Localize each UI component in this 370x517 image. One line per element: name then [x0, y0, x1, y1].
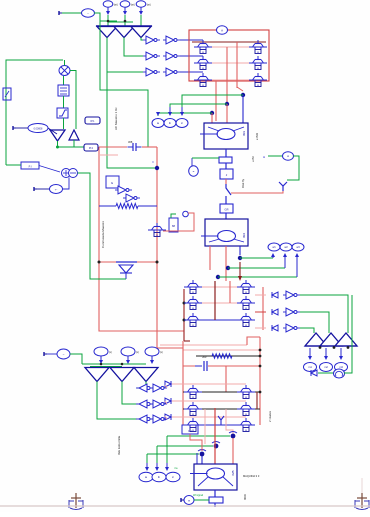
phase rail: [196, 46, 262, 48]
IGBT Q8: [190, 299, 196, 301]
block G1 box: [106, 176, 119, 188]
clutch switch SW1: [226, 184, 231, 195]
meter arrow b: [169, 107, 171, 113]
svg-text:IGE Esbornilla: IGE Esbornilla: [117, 435, 121, 455]
svg-text:w: w: [192, 396, 194, 399]
svg-text:(wt): (wt): [131, 4, 135, 7]
slave gate driver H1a: [139, 384, 147, 392]
wire out B2: [122, 382, 138, 405]
svg-text:MRD: MRD: [243, 494, 247, 500]
w sensor arrow 2: [284, 256, 286, 268]
svg-text:w: w: [257, 67, 259, 70]
bridge2a phase rail 3: [186, 319, 255, 321]
gate rx arrow r3: [272, 325, 278, 331]
gate g r1: [286, 291, 294, 299]
wire aux drop: [100, 21, 148, 147]
terminal circ: [183, 211, 189, 217]
sum junction SJ2: [69, 169, 78, 178]
red elbow right: [247, 337, 260, 345]
svg-text:Conmutada Maestro: Conmutada Maestro: [101, 220, 105, 248]
gate row pink b2b r3: [171, 416, 246, 418]
svg-text:2 niveles: 2 niveles: [268, 410, 272, 422]
comparator B1 triangle: [85, 368, 109, 382]
wire: [94, 13, 100, 21]
phase rail: [196, 62, 262, 64]
svg-text:w: w: [245, 324, 247, 327]
display m1: [304, 363, 317, 372]
Y probe P1: [279, 182, 287, 186]
source V1 oval: [82, 9, 95, 17]
wire comparator A3 output: [141, 38, 143, 41]
wire speed meas 3: [218, 276, 297, 278]
ammeter A on DC bus: [217, 26, 228, 34]
source oval V3: [57, 349, 70, 359]
wire shaft end: [214, 503, 216, 507]
sens arrow 3: [166, 463, 168, 468]
meter arrow c: [157, 112, 159, 114]
gate rx arrow r1: [272, 292, 278, 298]
arrow to disp 2: [325, 348, 327, 357]
gate driver G1b: [166, 36, 174, 44]
gate rx arrow r2: [272, 309, 278, 315]
bus top red: [99, 146, 127, 148]
svg-text:(s): (s): [109, 352, 112, 354]
wire speed meas 1: [240, 257, 273, 259]
reference source S1: [103, 1, 113, 7]
comparator A3 triangle: [131, 27, 151, 38]
limiter block LIM1: [57, 108, 68, 118]
wire motor3 feed b: [214, 452, 216, 464]
wire mult right: [70, 71, 76, 130]
terminal: [33, 187, 35, 191]
meter arrow a: [181, 107, 183, 113]
terminal: [12, 126, 14, 130]
bridge2b bus blue bottom: [186, 424, 255, 426]
svg-text:CH: CH: [188, 429, 192, 433]
display ic: [166, 472, 180, 482]
svg-text:P.I: P.I: [29, 165, 32, 169]
phase node dot f: [216, 275, 220, 279]
phase node dot e: [226, 266, 230, 270]
arrow into comparator input 1: [107, 7, 109, 12]
wire green gate3: [300, 328, 314, 333]
chopper box CH: [182, 425, 198, 434]
svg-text:w: w: [287, 155, 289, 158]
IGBT Q14: [190, 405, 196, 407]
wire: [16, 127, 28, 129]
bridge2a phase rail 1: [186, 286, 255, 288]
svg-text:(wt): (wt): [114, 4, 118, 7]
wire shaft: [225, 213, 227, 219]
source terminal: [43, 352, 45, 356]
svg-text:w: w: [192, 291, 194, 294]
svg-text:w2: w2: [284, 245, 288, 249]
bridge2b bus black 2: [183, 408, 260, 410]
meter display W3: [176, 119, 188, 128]
wire sens drop 3: [146, 454, 148, 463]
gate driver G2b: [166, 52, 174, 60]
bus rail right long: [259, 337, 261, 425]
comparator bus: [96, 25, 152, 27]
bus pink stub: [183, 349, 260, 351]
wire pi right: [39, 166, 60, 173]
wire driver green: [171, 214, 176, 218]
svg-text:i Ia: i Ia: [174, 466, 178, 470]
slave gate driver H2a: [139, 400, 147, 408]
wire comparator A1 output: [106, 38, 108, 73]
wire probe to switch: [231, 191, 283, 193]
junction: [98, 261, 101, 264]
node V dot: [155, 166, 159, 170]
gate driver G1a: [146, 36, 154, 44]
wire phase a to motor: [242, 95, 244, 123]
terminal: [180, 498, 182, 502]
IGBT Q11: [243, 299, 249, 301]
bridge2b bus black 1: [183, 391, 260, 393]
block small Z1: [3, 88, 11, 100]
red drop mid: [225, 366, 227, 392]
input terminal T1: [58, 11, 60, 15]
IGBT Q5: [255, 59, 261, 61]
svg-text:w: w: [188, 500, 190, 503]
junction: [259, 355, 262, 358]
display W1: [268, 243, 280, 251]
wire sens green 2: [157, 445, 213, 447]
svg-text:+-: +-: [55, 188, 58, 192]
bridge2b rail left: [182, 341, 184, 425]
reference source S3: [136, 1, 146, 7]
wire comparator A1 long drop to node V: [107, 72, 155, 168]
display ib: [152, 472, 166, 482]
bridge2a rail right: [262, 287, 264, 330]
bridge2a dc mid maroon: [214, 281, 216, 320]
junction: [56, 146, 59, 149]
gate driver G2a: [146, 52, 154, 60]
gear box GR: [220, 204, 233, 213]
w sensor arrow 3: [296, 256, 298, 277]
w sensor arrow 1: [272, 256, 274, 258]
IGBT Q16: [243, 388, 249, 390]
sens arrow 2: [156, 463, 158, 468]
bus top red 2: [142, 146, 157, 148]
wire shaft m3: [214, 490, 216, 497]
wire ch drop red: [190, 434, 202, 451]
wire sens drop 2: [156, 446, 158, 463]
gate chain g1: [118, 186, 126, 194]
wire phase green: [318, 372, 333, 374]
IGBT Q17: [243, 405, 249, 407]
gate row pink b2b r1: [171, 383, 246, 385]
carrier triangle U3: [335, 333, 357, 346]
carrier source S4: [94, 347, 108, 356]
PI regulator box: [21, 162, 39, 169]
phase node dot a: [241, 93, 245, 97]
wire: [107, 15, 109, 26]
wire bridge to sensor red: [214, 408, 216, 452]
wire gate out pink: [165, 401, 167, 404]
wire gate out pink: [165, 416, 167, 419]
svg-text:IM5: IM5: [231, 470, 235, 475]
gate driver G3a: [146, 68, 154, 76]
bridge 1 DC bus frame: [189, 30, 269, 81]
svg-text:w: w: [257, 51, 259, 54]
svg-text:w: w: [192, 413, 194, 416]
wire: [124, 15, 126, 26]
junction: [319, 346, 322, 349]
coupling K2: [209, 497, 223, 503]
IGBT Q13: [190, 388, 196, 390]
wire green gate1: [300, 295, 348, 333]
wire motor3 feed a: [201, 456, 203, 464]
svg-text:~: ~: [63, 353, 65, 357]
wire osc stub: [191, 158, 193, 166]
svg-text:IM4: IM4: [242, 233, 246, 238]
sum junction SJ1: [62, 169, 71, 178]
multiplier M1: [59, 66, 70, 76]
wire comparator A2 output: [124, 38, 143, 57]
phase node dot d: [238, 256, 242, 260]
induction machine IM3: [204, 123, 248, 149]
wire current meas c: [158, 113, 212, 116]
wire gate out pink: [165, 385, 167, 388]
wire wm green: [194, 499, 209, 501]
IGBT Q3: [200, 76, 206, 78]
shaft coupling K1: [219, 157, 232, 163]
wire: [140, 15, 142, 26]
sens arrow 1: [146, 463, 148, 468]
wire motor2 phase c jog: [239, 246, 241, 255]
gain oval K1: [28, 124, 48, 133]
svg-text:IP.2: IP.2: [89, 147, 94, 150]
svg-text:w: w: [245, 307, 247, 310]
carrier triangle U2: [320, 333, 342, 346]
meter display W2: [164, 119, 176, 128]
wire current meas b: [170, 104, 227, 107]
bus mid red: [157, 147, 183, 348]
svg-text:w: w: [257, 84, 259, 87]
bus left red: [99, 147, 184, 331]
source oval V2: [50, 185, 63, 194]
slave gate driver H2b: [153, 400, 161, 408]
wire buffer out: [73, 140, 75, 147]
svg-text:e IM3: e IM3: [255, 133, 259, 140]
IGBT Q7: [190, 283, 196, 285]
phase shift source PH: [334, 369, 345, 378]
gate chain g2: [126, 194, 134, 202]
integrator block I1: [58, 85, 69, 96]
wire sum out: [78, 173, 127, 279]
gate g r2: [286, 308, 294, 316]
svg-text:(s): (s): [160, 352, 163, 354]
junction: [259, 365, 262, 368]
gate feed arrow maroon: [239, 262, 241, 276]
arrow carrier: [100, 356, 102, 361]
comparator A2 triangle: [114, 27, 134, 38]
arrow to disp 1: [309, 348, 311, 357]
svg-text:m2: m2: [324, 365, 328, 369]
display m2: [320, 363, 333, 372]
svg-text:IP.1: IP.1: [91, 120, 96, 123]
wire pink r2: [255, 311, 266, 313]
wire switch to gear: [225, 196, 227, 204]
IGBT Q18: [243, 421, 249, 423]
junction: [259, 349, 262, 352]
IGBT Q6: [255, 76, 261, 78]
current sensor dot 2: [214, 444, 219, 449]
svg-text:(s): (s): [136, 352, 139, 354]
junction: [107, 20, 110, 23]
capacitor C9: [128, 146, 134, 148]
svg-text:GR: GR: [225, 208, 229, 212]
wire gate to bridge: [180, 71, 203, 73]
pwm bus green b: [90, 366, 122, 368]
wire out B3: [137, 382, 146, 389]
wire sensor left: [268, 155, 282, 157]
phase rail: [196, 79, 262, 81]
svg-text:0.00008: 0.00008: [34, 128, 43, 131]
wire pink drop s1: [226, 409, 233, 434]
wire sensor loop: [287, 156, 299, 180]
wire sens drop 1: [166, 436, 168, 463]
gate g r3: [286, 324, 294, 332]
svg-text:w: w: [245, 291, 247, 294]
transistor Q13: [154, 226, 160, 228]
slave gate driver H1b: [153, 384, 161, 392]
display ia: [139, 472, 153, 482]
wire jog: [108, 21, 133, 23]
wire src: [47, 353, 57, 355]
wire mult top: [64, 60, 66, 66]
tri base bus: [305, 345, 357, 347]
current sensor dot 3: [200, 452, 205, 457]
IGBT Q9: [190, 316, 196, 318]
current sensor dot 1: [231, 434, 236, 439]
wire motor2 phase b: [225, 246, 227, 281]
bridge1 internal bus: [226, 47, 228, 104]
wire: [63, 118, 65, 129]
carrier source S6: [145, 347, 159, 356]
svg-text:w: w: [245, 429, 247, 432]
wire jog: [100, 20, 117, 22]
wire gate to bridge: [180, 55, 203, 57]
wire src right: [70, 354, 82, 364]
svg-text:m1: m1: [308, 365, 312, 369]
bridge1 internal bus: [236, 42, 238, 88]
buffer A5 triangle: [69, 130, 79, 140]
IGBT Q12: [243, 316, 249, 318]
resistor R5: [99, 205, 116, 207]
bus lower red: [99, 261, 157, 263]
bridge2a dc mid2: [229, 281, 231, 303]
bridge2a phase rail 2: [186, 302, 255, 304]
phase node dot b: [225, 102, 229, 106]
stub pink: [99, 154, 118, 156]
oscillator oval OSC: [189, 166, 199, 176]
wire driver loop red: [163, 213, 194, 231]
pwm bus green a: [82, 363, 146, 365]
comparator B3 triangle: [134, 368, 158, 382]
wire pink r1: [255, 294, 266, 296]
wire shaft: [225, 163, 227, 169]
svg-text:(wt): (wt): [147, 4, 151, 7]
bridge1 internal bus: [215, 81, 217, 121]
wire dc jog: [237, 87, 243, 91]
comparator A1 triangle: [97, 27, 117, 38]
page bottom rule: [0, 505, 370, 507]
rx arrow left small: [311, 370, 317, 376]
wire osc green: [192, 157, 219, 159]
carrier source S5: [121, 347, 135, 356]
svg-text:MAQUINA 3 3: MAQUINA 3 3: [243, 474, 260, 478]
induction machine IM4: [205, 219, 248, 246]
wire: [62, 12, 83, 14]
svg-text:w: w: [245, 413, 247, 416]
svg-text:w: w: [245, 396, 247, 399]
binder tab left: [71, 493, 81, 508]
svg-text:w3: w3: [296, 245, 300, 249]
wire pink r3: [255, 327, 266, 329]
binder tab right: [357, 493, 367, 508]
scope box SC2: [84, 144, 98, 151]
amplifier A4 triangle: [50, 130, 65, 141]
svg-text:w: w: [192, 307, 194, 310]
wire mult down: [63, 76, 65, 85]
arrow into comparator input 3: [140, 7, 142, 12]
speed sensor oval: [283, 152, 294, 160]
wire sens green 1: [167, 435, 230, 437]
induction machine IM5: [194, 464, 237, 490]
wire motor2 phase a: [209, 246, 211, 270]
svg-text:A: A: [221, 29, 223, 33]
display m3: [335, 363, 348, 372]
svg-text:w: w: [202, 51, 204, 54]
display W3: [292, 243, 304, 251]
svg-text:u IM: u IM: [251, 156, 255, 162]
wire triangle out: [58, 141, 85, 147]
svg-text:H: H: [263, 155, 265, 159]
wire phase right up: [344, 295, 352, 373]
gate driver G3b: [166, 68, 174, 76]
wire pink drop s2: [204, 409, 206, 444]
gate row pink b2b r2: [171, 400, 246, 402]
wire row3 feed: [107, 71, 143, 73]
svg-text:w: w: [156, 234, 158, 237]
junction: [100, 363, 103, 366]
IGBT Q4: [255, 43, 261, 45]
svg-text:w: w: [192, 324, 194, 327]
wire pi left: [6, 164, 21, 166]
svg-text:V: V: [151, 161, 155, 163]
display W2: [280, 243, 292, 251]
thyristor SCR1: [116, 261, 137, 263]
wire: [63, 96, 65, 108]
dc capacitor C10: [195, 365, 202, 367]
scope box SC1: [85, 117, 100, 124]
svg-text:w: w: [202, 84, 204, 87]
svg-text:Wm/grad: Wm/grad: [193, 494, 204, 497]
wire green loop left: [6, 60, 63, 165]
IGBT Q1: [200, 43, 206, 45]
carrier triangle U1: [305, 333, 327, 346]
wire: [37, 188, 50, 190]
bus pink wide: [160, 344, 247, 346]
gate tx arrow l1: [165, 381, 171, 387]
wire green gate2: [300, 312, 329, 333]
wire phase c to motor: [211, 113, 213, 123]
wire motor3 elbow: [196, 453, 198, 464]
meter display W1: [152, 119, 164, 128]
reference source S2: [120, 1, 130, 7]
